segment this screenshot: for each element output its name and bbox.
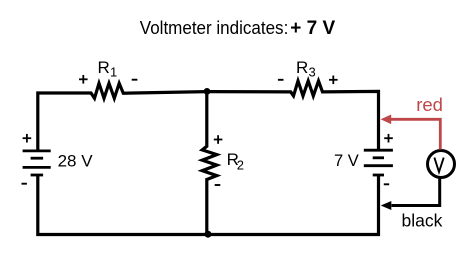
red test lead wire xyxy=(391,119,441,149)
black test lead arrowhead xyxy=(381,201,392,210)
svg-text:1: 1 xyxy=(110,65,117,80)
voltmeter M1 letter V xyxy=(434,158,443,172)
svg-text:red: red xyxy=(416,94,443,115)
battery B2 minus xyxy=(384,183,389,185)
svg-text:black: black xyxy=(402,211,443,231)
wire top-right run with resistor R3 zigzag xyxy=(207,81,379,150)
resistor R2 minus xyxy=(215,184,221,186)
resistor R2 plus xyxy=(214,135,223,144)
svg-text:7 V: 7 V xyxy=(334,152,359,170)
battery B1 minus xyxy=(22,183,27,185)
wire bottom run xyxy=(38,175,379,235)
node junction dot bottom xyxy=(205,231,212,238)
wire top-left run with resistor R1 zigzag xyxy=(38,83,207,151)
svg-text:2: 2 xyxy=(237,158,244,173)
resistor R3 minus xyxy=(278,79,284,81)
svg-text:Voltmeter indicates:: Voltmeter indicates: xyxy=(140,17,288,38)
node junction dot top xyxy=(204,88,211,95)
battery B2 plus xyxy=(384,134,393,143)
svg-text:+ 7 V: + 7 V xyxy=(290,18,335,39)
wire middle vertical with resistor R2 zigzag xyxy=(202,92,217,235)
battery B1 plus xyxy=(23,134,32,143)
resistor R3 plus xyxy=(329,76,338,85)
resistor R1 plus xyxy=(79,75,88,84)
svg-text:R: R xyxy=(296,58,308,77)
battery B2 7V plates xyxy=(364,150,393,175)
red test lead arrowhead xyxy=(381,115,392,125)
voltmeter M1 circle xyxy=(428,151,455,178)
battery B1 28V plates xyxy=(23,151,51,175)
svg-text:R: R xyxy=(98,58,110,77)
svg-text:3: 3 xyxy=(309,65,316,80)
black test lead wire xyxy=(392,178,440,206)
resistor R1 minus xyxy=(132,79,138,81)
svg-text:28 V: 28 V xyxy=(58,151,94,170)
